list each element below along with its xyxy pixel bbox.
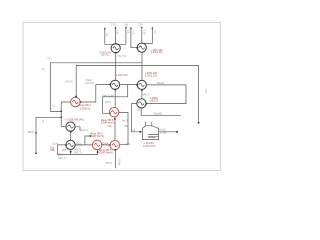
svg-text:Band(2): Band(2) — [154, 113, 162, 115]
svg-text:(4R,7): (4R,7) — [74, 149, 81, 151]
source V9 red — [110, 140, 120, 150]
svg-text:(4V, 7V): (4V, 7V) — [118, 56, 126, 58]
wire V5 right loop — [146, 85, 186, 104]
svg-text:(0.4m): (0.4m) — [160, 133, 167, 135]
wire V6 bottom out — [141, 108, 181, 115]
junction V8 left — [109, 112, 111, 114]
wire net2 rail — [76, 65, 198, 122]
transducer box U1 — [142, 126, 158, 140]
svg-text:1.34(1.1V): 1.34(1.1V) — [151, 51, 163, 54]
svg-text:0.05/0.02: 0.05/0.02 — [80, 107, 91, 110]
source V6 — [137, 99, 146, 108]
junction stub — [60, 116, 62, 118]
junction V1 bottom — [115, 52, 117, 54]
svg-text:1.2V: 1.2V — [111, 25, 116, 27]
wire V4 right — [119, 84, 137, 86]
svg-text:(4R, 7): (4R, 7) — [74, 152, 81, 154]
wire V4 branch loop to V8 left — [103, 85, 128, 114]
source V10 — [66, 140, 75, 149]
wire V4 bottom to V8 — [114, 90, 116, 109]
pin 1 — [145, 122, 147, 126]
end dot — [176, 131, 178, 133]
junction V4 bottom — [114, 89, 116, 91]
svg-text:(CMP RezV): (CMP RezV) — [101, 122, 115, 125]
power arrow P2 — [115, 27, 117, 29]
wire V11 right to V9 — [102, 144, 111, 146]
svg-text:1u.: 1u. — [42, 69, 46, 71]
wire V1 bottom to V4 — [115, 53, 117, 80]
svg-text:(4R,7): (4R,7) — [105, 163, 112, 165]
wire box right — [159, 131, 177, 133]
junction V9 bottom — [114, 149, 116, 151]
wire V10 left down loop — [58, 145, 98, 155]
svg-text:1(2V)A: 1(2V)A — [101, 143, 109, 146]
source V7 — [66, 122, 75, 131]
svg-text:0.5A: 0.5A — [142, 30, 145, 35]
svg-text:(4R): (4R) — [50, 149, 55, 152]
left stub wire — [36, 117, 61, 153]
svg-text:1uF: 1uF — [137, 110, 142, 112]
internal plates — [148, 135, 159, 137]
junction V5 left — [136, 84, 138, 86]
power arrow P1 — [104, 27, 106, 29]
svg-text:(CMP RezV): (CMP RezV) — [90, 135, 104, 138]
svg-text:Gn=0.4: Gn=0.4 — [80, 130, 88, 132]
svg-text:(4R,7): (4R,7) — [143, 94, 150, 96]
junction box bottom — [60, 111, 62, 113]
wire V9 bottom down — [115, 150, 117, 168]
source V4 — [111, 80, 120, 89]
svg-text:Out(1): Out(1) — [159, 129, 166, 132]
wire V3 left — [61, 102, 70, 127]
junction V11 bottom — [97, 151, 99, 153]
svg-text:(4v,7): (4v,7) — [122, 120, 128, 122]
stub near V11 — [85, 136, 90, 145]
svg-text:Bandw: Bandw — [157, 83, 164, 85]
svg-text:1Ld/s: 1Ld/s — [52, 144, 58, 146]
svg-text:(21,7%): (21,7%) — [86, 83, 94, 85]
power arrow P6 — [130, 27, 132, 29]
pin 2 — [151, 122, 153, 126]
svg-text:0.5A: 0.5A — [115, 30, 118, 35]
wire V7 right stub — [75, 127, 80, 131]
svg-text:(4V,7V): (4V,7V) — [65, 81, 73, 83]
wire V6 left to box — [131, 104, 142, 132]
wire V8 bottom to V9 — [114, 117, 116, 140]
junction V3 top — [75, 96, 77, 98]
junction V10 bottom — [70, 151, 72, 153]
junction V10 left — [65, 144, 67, 146]
svg-text:(4R,7): (4R,7) — [105, 102, 112, 104]
stub arrow — [35, 132, 37, 134]
svg-text:(4R, 7): (4R, 7) — [59, 158, 66, 160]
svg-text:(4R,7): (4R,7) — [62, 150, 69, 152]
svg-text:Gain (1.3s): Gain (1.3s) — [103, 95, 115, 97]
wire V8 right loop to V9 right — [119, 112, 129, 144]
svg-text:(CMP RezV): (CMP RezV) — [99, 152, 113, 155]
border frame — [23, 23, 221, 171]
source V11 red — [92, 140, 102, 150]
probe arrow down — [198, 122, 200, 124]
junction V8 bottom — [114, 118, 116, 120]
svg-text:0M(1): 0M(1) — [28, 132, 34, 134]
svg-text:LM(1U): LM(1U) — [150, 100, 159, 103]
source V3 red — [71, 97, 81, 107]
junction V4 left — [109, 84, 111, 86]
svg-text:(4R): (4R) — [107, 126, 112, 128]
junction V3 right — [80, 101, 82, 103]
junction V7 bottom — [70, 131, 72, 133]
wire V3 right loop to V4 left — [80, 85, 111, 102]
wire top rail V2 — [131, 28, 152, 48]
svg-text:1.2/3C A/V: 1.2/3C A/V — [116, 74, 128, 77]
wire V2 bottom to left loop — [50, 52, 142, 111]
junction V6 right — [145, 103, 147, 105]
internal mark — [148, 136, 155, 138]
wire top rail V1 — [105, 27, 126, 44]
source V8 red — [109, 107, 119, 117]
svg-text:1uA: 1uA — [124, 24, 129, 27]
source V2 — [137, 43, 146, 52]
svg-text:(0V 7V): (0V 7V) — [101, 55, 109, 57]
junction V9 left — [109, 144, 111, 146]
wire V10 right to V11 — [75, 144, 93, 146]
junction V2 left — [136, 47, 138, 49]
source V5 — [137, 80, 146, 89]
wire V7 left — [61, 126, 66, 128]
svg-text:0.4/0.3 A/V: 0.4/0.3 A/V — [143, 145, 156, 148]
svg-text:0.5 Am: 0.5 Am — [117, 158, 120, 165]
power arrow P4 — [141, 26, 143, 28]
source V1 — [111, 44, 120, 53]
power arrow P5 — [151, 27, 153, 29]
svg-text:(4R): (4R) — [124, 126, 129, 128]
stub dot — [89, 135, 91, 137]
svg-text:CT(4): CT(4) — [57, 154, 63, 156]
svg-text:+ 1/3DE A/B (4V): + 1/3DE A/B (4V) — [65, 119, 84, 122]
svg-text:(4R): (4R) — [126, 144, 131, 146]
svg-text:1.2V: 1.2V — [138, 24, 143, 26]
wire V5 bottom to V6 — [141, 89, 143, 99]
stub end dot — [35, 152, 37, 154]
wire V7 bottom to V10 — [70, 131, 72, 140]
junction box left — [139, 131, 141, 133]
svg-text:1.34(1.1V): 1.34(1.1V) — [145, 74, 157, 77]
power arrow P3 — [125, 26, 127, 28]
junction V5 bottom — [141, 89, 143, 91]
